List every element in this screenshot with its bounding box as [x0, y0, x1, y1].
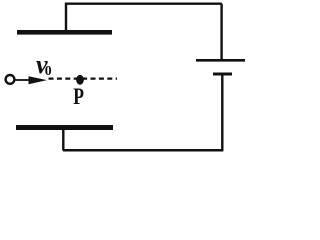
svg-text:0: 0	[45, 63, 52, 78]
svg-text:P: P	[73, 82, 84, 109]
